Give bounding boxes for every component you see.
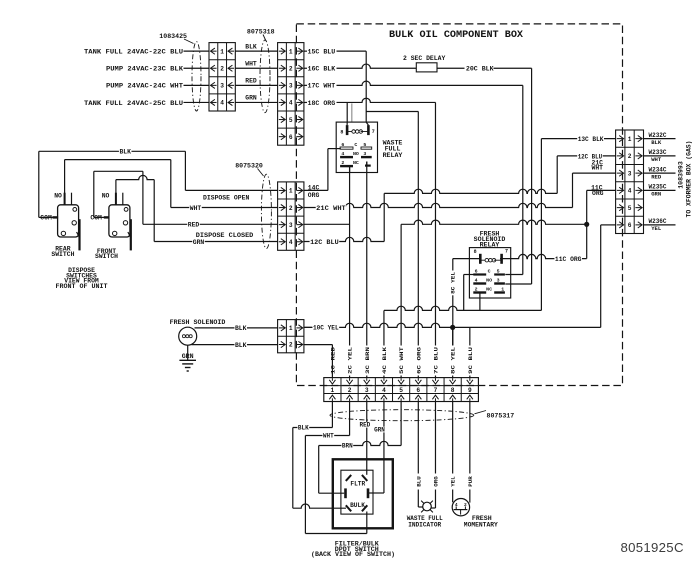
svg-text:WHT: WHT bbox=[190, 205, 202, 212]
svg-text:2: 2 bbox=[289, 65, 293, 72]
svg-text:1: 1 bbox=[289, 188, 293, 195]
svg-text:TO XFORMER BOX (GAS): TO XFORMER BOX (GAS) bbox=[686, 141, 693, 218]
svg-text:7: 7 bbox=[372, 129, 375, 135]
svg-text:1083993: 1083993 bbox=[678, 161, 685, 189]
svg-text:7C BLU: 7C BLU bbox=[432, 346, 439, 374]
svg-text:5: 5 bbox=[628, 205, 632, 212]
svg-text:2: 2 bbox=[289, 342, 293, 349]
svg-text:8C YEL: 8C YEL bbox=[450, 271, 457, 294]
svg-text:6: 6 bbox=[628, 222, 632, 229]
svg-text:4: 4 bbox=[628, 188, 632, 195]
svg-text:9: 9 bbox=[468, 387, 472, 394]
svg-text:1083425: 1083425 bbox=[159, 33, 187, 40]
svg-text:3: 3 bbox=[289, 83, 293, 90]
svg-text:BULK: BULK bbox=[350, 502, 365, 509]
svg-text:ORG: ORG bbox=[592, 190, 604, 197]
svg-text:18C ORG: 18C ORG bbox=[308, 100, 336, 107]
svg-text:1: 1 bbox=[628, 136, 632, 143]
svg-text:WHT: WHT bbox=[591, 165, 603, 172]
svg-text:GRN: GRN bbox=[182, 353, 194, 360]
svg-text:11C ORG: 11C ORG bbox=[555, 256, 582, 263]
svg-text:W236C: W236C bbox=[649, 218, 667, 225]
svg-text:BLU: BLU bbox=[415, 476, 422, 487]
svg-text:8: 8 bbox=[451, 387, 455, 394]
svg-text:6C ORG: 6C ORG bbox=[415, 346, 422, 374]
svg-text:NO: NO bbox=[102, 192, 110, 199]
svg-text:FLTR: FLTR bbox=[350, 480, 365, 487]
svg-text:BLK: BLK bbox=[651, 139, 662, 146]
svg-text:2C YEL: 2C YEL bbox=[347, 346, 354, 374]
svg-text:2: 2 bbox=[289, 205, 293, 212]
svg-text:3: 3 bbox=[289, 222, 293, 229]
svg-text:4: 4 bbox=[289, 239, 293, 246]
svg-text:COM: COM bbox=[40, 215, 52, 222]
svg-text:6: 6 bbox=[289, 134, 293, 141]
svg-text:NO: NO bbox=[353, 151, 359, 157]
svg-text:8075318: 8075318 bbox=[247, 29, 275, 36]
svg-text:GRN: GRN bbox=[245, 95, 257, 102]
svg-text:4: 4 bbox=[220, 100, 224, 107]
svg-text:4: 4 bbox=[289, 100, 293, 107]
svg-text:4C BLK: 4C BLK bbox=[381, 346, 388, 374]
svg-text:14C: 14C bbox=[308, 184, 320, 191]
svg-text:1C RED: 1C RED bbox=[329, 346, 336, 374]
svg-text:6: 6 bbox=[416, 387, 420, 394]
svg-text:RELAY: RELAY bbox=[480, 241, 500, 248]
svg-text:COM: COM bbox=[90, 215, 102, 222]
svg-text:2: 2 bbox=[628, 153, 632, 160]
svg-text:NO: NO bbox=[54, 192, 62, 199]
svg-text:3: 3 bbox=[628, 170, 632, 177]
svg-text:5: 5 bbox=[289, 117, 293, 124]
svg-text:1: 1 bbox=[220, 48, 224, 55]
svg-text:W234C: W234C bbox=[649, 166, 667, 173]
svg-text:C: C bbox=[354, 142, 357, 148]
svg-text:PUR: PUR bbox=[467, 476, 474, 487]
svg-text:GRN: GRN bbox=[651, 191, 661, 198]
svg-text:3: 3 bbox=[365, 387, 369, 394]
svg-text:7: 7 bbox=[434, 387, 438, 394]
svg-text:RELAY: RELAY bbox=[383, 152, 403, 159]
svg-text:8: 8 bbox=[474, 249, 477, 255]
svg-text:FRONT OF UNIT: FRONT OF UNIT bbox=[56, 283, 108, 290]
svg-text:8C YEL: 8C YEL bbox=[450, 346, 457, 374]
svg-text:7: 7 bbox=[505, 249, 508, 255]
svg-text:BLK: BLK bbox=[298, 425, 309, 432]
svg-text:PUMP 24VAC-24C WHT: PUMP 24VAC-24C WHT bbox=[106, 83, 183, 90]
svg-text:8075320: 8075320 bbox=[235, 162, 263, 169]
svg-text:5: 5 bbox=[399, 387, 403, 394]
svg-text:GRN: GRN bbox=[193, 239, 205, 246]
svg-text:DISPOSE CLOSED: DISPOSE CLOSED bbox=[196, 232, 254, 239]
svg-text:17C WHT: 17C WHT bbox=[308, 83, 336, 90]
svg-text:2: 2 bbox=[348, 387, 352, 394]
svg-text:WHT: WHT bbox=[245, 60, 257, 67]
svg-text:TANK FULL 24VAC-25C BLU: TANK FULL 24VAC-25C BLU bbox=[84, 100, 183, 107]
svg-text:2 SEC DELAY: 2 SEC DELAY bbox=[403, 55, 445, 62]
svg-text:(BACK VIEW OF SWITCH): (BACK VIEW OF SWITCH) bbox=[311, 551, 395, 558]
svg-text:INDICATOR: INDICATOR bbox=[408, 522, 441, 529]
svg-text:TANK FULL 24VAC-22C BLU: TANK FULL 24VAC-22C BLU bbox=[84, 48, 183, 55]
svg-text:FRESH SOLENOID: FRESH SOLENOID bbox=[170, 319, 226, 326]
svg-text:RED: RED bbox=[651, 173, 662, 180]
svg-text:ORG: ORG bbox=[308, 192, 320, 199]
svg-text:16C BLK: 16C BLK bbox=[308, 66, 336, 73]
svg-text:W235C: W235C bbox=[649, 184, 667, 191]
svg-text:9C BLU: 9C BLU bbox=[467, 346, 474, 374]
svg-text:5C WHT: 5C WHT bbox=[398, 346, 405, 374]
svg-text:PUMP 24VAC-23C BLK: PUMP 24VAC-23C BLK bbox=[106, 66, 183, 73]
svg-text:ORG: ORG bbox=[432, 476, 439, 487]
svg-text:C: C bbox=[488, 268, 491, 274]
svg-text:BULK OIL COMPONENT BOX: BULK OIL COMPONENT BOX bbox=[389, 30, 524, 41]
svg-text:YEL: YEL bbox=[651, 225, 662, 232]
svg-text:NC: NC bbox=[353, 160, 359, 166]
svg-text:YEL: YEL bbox=[450, 476, 457, 487]
svg-text:8075317: 8075317 bbox=[487, 413, 515, 420]
svg-text:W232C: W232C bbox=[649, 132, 667, 139]
svg-text:BLK: BLK bbox=[235, 342, 247, 349]
svg-text:12C BLU: 12C BLU bbox=[310, 239, 339, 246]
svg-text:4: 4 bbox=[382, 387, 386, 394]
svg-text:21C WHT: 21C WHT bbox=[316, 205, 346, 212]
svg-text:2: 2 bbox=[220, 65, 224, 72]
svg-text:RED: RED bbox=[245, 78, 257, 85]
svg-text:WHT: WHT bbox=[651, 156, 662, 163]
svg-text:10C YEL: 10C YEL bbox=[313, 325, 339, 332]
svg-text:RED: RED bbox=[188, 222, 200, 229]
svg-text:BLK: BLK bbox=[119, 149, 131, 156]
svg-text:3C BRN: 3C BRN bbox=[364, 346, 371, 374]
svg-text:15C BLU: 15C BLU bbox=[308, 48, 336, 55]
svg-text:BRN: BRN bbox=[342, 443, 353, 450]
svg-text:NO: NO bbox=[486, 277, 492, 283]
svg-text:3: 3 bbox=[220, 83, 224, 90]
svg-text:BLK: BLK bbox=[235, 325, 247, 332]
svg-text:20C BLK: 20C BLK bbox=[466, 66, 494, 73]
svg-text:SWITCH: SWITCH bbox=[95, 253, 118, 260]
svg-text:1: 1 bbox=[331, 387, 335, 394]
svg-text:1: 1 bbox=[289, 325, 293, 332]
svg-text:WHT: WHT bbox=[323, 433, 334, 440]
svg-text:1: 1 bbox=[289, 48, 293, 55]
svg-text:SWITCH: SWITCH bbox=[51, 251, 74, 258]
svg-text:MOMENTARY: MOMENTARY bbox=[464, 522, 498, 529]
svg-text:RED: RED bbox=[359, 422, 370, 429]
svg-text:8: 8 bbox=[340, 129, 343, 135]
svg-text:13C BLK: 13C BLK bbox=[578, 136, 604, 143]
svg-text:BLK: BLK bbox=[245, 43, 257, 50]
svg-text:8051925C: 8051925C bbox=[621, 540, 684, 555]
svg-text:NC: NC bbox=[486, 286, 492, 292]
svg-text:DISPOSE OPEN: DISPOSE OPEN bbox=[203, 195, 249, 202]
svg-text:W233C: W233C bbox=[649, 149, 667, 156]
svg-text:GRN: GRN bbox=[374, 426, 385, 433]
